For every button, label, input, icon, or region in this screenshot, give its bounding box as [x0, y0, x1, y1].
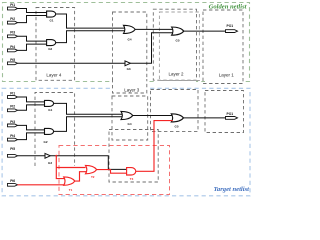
pin Pi5 (target): [8, 147, 18, 157]
target layer 1 box: [205, 91, 244, 133]
layer 4 box: [36, 8, 75, 81]
wire G1 to G4 (target): [54, 103, 122, 114]
svg-text:G3: G3: [48, 161, 52, 165]
svg-text:Pi3: Pi3: [10, 31, 15, 35]
svg-text:G1: G1: [49, 19, 53, 23]
pin PO1 (golden): [226, 24, 238, 32]
wire G2 to G4 (target): [54, 117, 122, 132]
red wire T3 to G5: [136, 121, 173, 172]
or-gate G5 (target): [171, 114, 183, 129]
layer 1 box: [203, 10, 243, 84]
svg-text:T2: T2: [91, 175, 95, 179]
and-gate G1 (target): [45, 100, 54, 112]
wire G4 to G5: [135, 28, 173, 30]
svg-text:Golden netlist: Golden netlist: [209, 3, 247, 10]
pin Pi2 (target): [8, 105, 18, 112]
svg-text:G2: G2: [44, 140, 48, 144]
wire G3 to T3 (target, black): [50, 156, 127, 170]
svg-text:G2: G2: [48, 47, 52, 51]
pin PO1 (target): [226, 112, 238, 119]
red wire T2 to T3: [97, 170, 128, 174]
wire Pi4 to G2 (target): [18, 133, 46, 140]
pin Pi1 (golden): [8, 3, 18, 10]
layer 3 box: [113, 12, 147, 93]
svg-text:Pi4: Pi4: [10, 134, 15, 138]
pin Pi4 (target): [8, 134, 18, 141]
svg-text:T3: T3: [130, 177, 134, 181]
svg-text:Layer 3: Layer 3: [124, 88, 140, 93]
pin Pi6 (target): [8, 179, 18, 186]
red dashed box: [59, 146, 170, 195]
pin Pi5 (golden): [8, 58, 18, 65]
svg-text:Target netlist: Target netlist: [214, 186, 250, 193]
svg-text:Pi1: Pi1: [10, 3, 15, 7]
svg-text:Pi1: Pi1: [10, 91, 15, 95]
layer 2 inner box: [159, 12, 199, 81]
red wire branch to T2: [56, 167, 85, 169]
buffer G3: [125, 61, 131, 71]
svg-text:Pi5: Pi5: [10, 58, 15, 62]
svg-text:Pi2: Pi2: [10, 17, 15, 21]
svg-text:Layer 4: Layer 4: [46, 73, 62, 78]
and-gate G2 (target): [44, 128, 54, 144]
wire G4 to G5 (target): [133, 115, 173, 117]
wire Pi3 to G2 (target): [18, 125, 46, 129]
wire Pi2 to G1: [18, 16, 48, 23]
pin Pi3 (target): [8, 120, 18, 127]
svg-text:T1: T1: [69, 188, 73, 192]
wire Pi1 to G1 (target): [18, 97, 46, 102]
wire Pi1 to G1: [18, 9, 48, 13]
wire G3 to G5: [130, 33, 172, 64]
or-gate T1 (red): [64, 177, 75, 192]
target netlist border: [2, 88, 250, 196]
pin Pi4 (golden): [8, 45, 18, 52]
svg-text:Pi4: Pi4: [10, 45, 15, 49]
svg-text:Pi3: Pi3: [10, 120, 15, 124]
or-gate G4 (target): [121, 111, 133, 126]
svg-text:Pi2: Pi2: [10, 105, 15, 109]
svg-text:Layer 2: Layer 2: [168, 72, 184, 77]
layer 2 box: [153, 9, 196, 80]
or-gate G5: [172, 27, 184, 43]
svg-text:G5: G5: [174, 124, 178, 128]
border gap patch under layer 3: [110, 80, 148, 95]
wire G5 to PO1 (target): [184, 117, 226, 119]
wire G5 to PO1: [184, 30, 226, 32]
pin Pi3 (golden): [8, 31, 18, 38]
border gap patch under layer 4: [37, 81, 75, 83]
wire G2 to G4: [56, 31, 125, 43]
target inner layer box: [109, 130, 158, 183]
pin Pi1 (target): [8, 91, 18, 98]
svg-text:PO1: PO1: [227, 112, 234, 116]
svg-text:G5: G5: [175, 39, 179, 43]
pin Pi2 (golden): [8, 17, 18, 24]
or-gate T2 (red): [86, 165, 97, 179]
and-gate T3 (red): [127, 168, 136, 182]
and-gate G1: [47, 11, 56, 23]
wire G1 to G4: [56, 14, 125, 28]
svg-text:G4: G4: [127, 122, 131, 126]
wire Pi2 to G1 (target): [18, 105, 46, 110]
buffer G3 (target): [45, 153, 52, 165]
red wire T1 to T2: [75, 172, 87, 181]
target layer 4 box: [35, 93, 75, 167]
red wire Pi6 to T1: [18, 184, 65, 186]
svg-text:G3: G3: [127, 67, 131, 71]
wire Pi5 to G3: [18, 62, 126, 64]
and-gate G2: [47, 40, 56, 51]
red wire G3 branch to T1: [56, 156, 65, 179]
svg-text:G4: G4: [127, 37, 131, 41]
svg-text:PO1: PO1: [227, 24, 234, 28]
svg-text:Layer 1: Layer 1: [219, 73, 235, 78]
golden netlist border: [3, 3, 250, 82]
svg-text:G1: G1: [48, 108, 52, 112]
svg-text:Pi6: Pi6: [10, 179, 15, 183]
wire Pi3 to G2: [18, 36, 48, 41]
target layer 2 box: [151, 90, 199, 132]
or-gate G4: [124, 25, 136, 41]
junction node on G3 output: [55, 155, 57, 157]
layer 3 box lower part redraw: [113, 79, 147, 93]
wire Pi4 to G2: [18, 44, 48, 50]
wire Pi5 to G3 (target): [18, 155, 46, 157]
target layer 3 box: [112, 96, 148, 140]
svg-text:Pi5: Pi5: [10, 147, 15, 151]
